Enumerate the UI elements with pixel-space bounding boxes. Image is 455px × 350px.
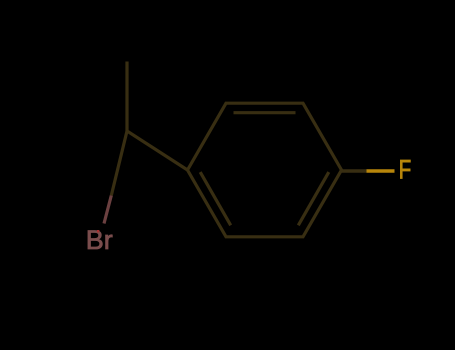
double bond inner line lower-right bbox=[298, 172, 329, 225]
methyl bond vertical bbox=[125, 62, 128, 132]
bond ring to CH bbox=[127, 131, 188, 170]
benzene ring outline bbox=[188, 103, 342, 237]
double bond inner line lower-left bbox=[200, 172, 231, 225]
svg-text:Br: Br bbox=[86, 225, 113, 255]
bond ring to F fluorine half bbox=[367, 169, 395, 172]
bond CH to Br bromine half bbox=[104, 196, 111, 224]
bond ring to F carbon half bbox=[342, 169, 367, 172]
red artifact dot near Br bbox=[97, 230, 99, 232]
svg-text:F: F bbox=[399, 155, 412, 185]
double bond inner line top bbox=[234, 111, 296, 114]
bond CH to Br carbon half bbox=[111, 131, 127, 196]
